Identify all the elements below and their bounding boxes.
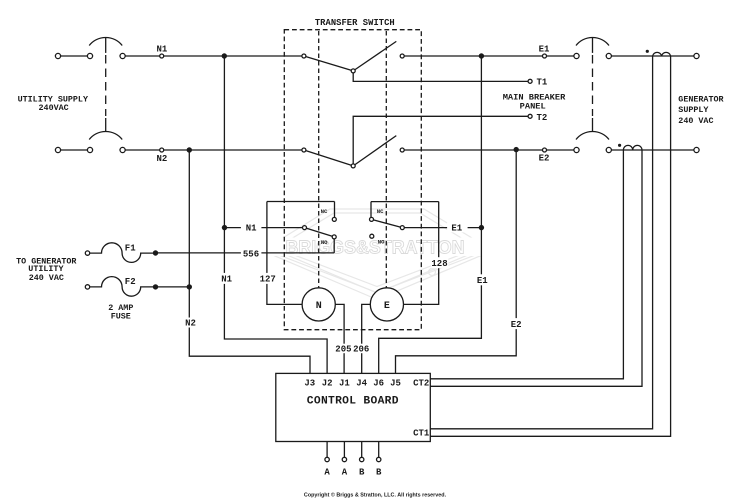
junction E1 top [479, 53, 484, 58]
wire pole 1 common to T1 [353, 71, 528, 82]
current transformer CT2 on E2 line (humps) [623, 145, 642, 150]
junction N1 top [222, 53, 227, 58]
coil E left lead (wire 206) to J4 [362, 304, 371, 373]
wire E2 through CT to generator terminal [609, 149, 697, 151]
label E1 relay (inline) [447, 222, 468, 232]
svg-text:E1: E1 [539, 45, 550, 55]
transfer switch dashed enclosure [284, 30, 421, 330]
transfer switch pole 1 blade to open contact [353, 41, 396, 71]
utility breaker pole 2 arc [89, 131, 122, 139]
transfer switch pole 1 pivot [351, 69, 355, 73]
wire pole 2 common to T2 [353, 116, 528, 166]
transfer switch pole 1 blade (N side) [304, 56, 353, 71]
node N2 marker circle [160, 148, 164, 152]
CT2 polarity dot [618, 144, 621, 147]
junction F1 output [153, 250, 158, 255]
junction N1 at relay line [222, 225, 227, 230]
svg-text:N1: N1 [246, 224, 257, 234]
utility breaker pole 1 handle tick [105, 37, 107, 53]
relay N NC contact [332, 217, 336, 221]
svg-text:N1: N1 [156, 45, 167, 55]
svg-text:N1: N1 [221, 275, 232, 285]
wire utility L2 stub [58, 149, 90, 151]
svg-text:J4: J4 [356, 378, 367, 388]
junction E1 at relay line [479, 225, 484, 230]
coil E [370, 288, 403, 321]
junction F2 output [153, 284, 158, 289]
label E1 vertical (inline) [474, 274, 490, 285]
terminal circle utility breaker 1 right [120, 53, 125, 58]
svg-text:J2: J2 [322, 378, 333, 388]
svg-text:J5: J5 [390, 378, 401, 388]
svg-text:CT1: CT1 [413, 429, 430, 439]
fuse F1 element [90, 243, 156, 263]
terminal main breaker 2 left [574, 147, 579, 152]
svg-text:B: B [359, 468, 365, 478]
pin A1 terminal [325, 457, 329, 461]
svg-text:A: A [342, 468, 348, 478]
svg-text:SUPPLY: SUPPLY [678, 105, 709, 115]
svg-text:NC: NC [377, 208, 384, 215]
transfer switch pole 2 pivot [351, 164, 355, 168]
svg-text:F2: F2 [125, 277, 136, 287]
control board pin B2 lead [378, 442, 380, 458]
svg-text:NO: NO [321, 239, 328, 246]
terminal circle utility L1 left [55, 53, 60, 58]
relay E NC contact drop [370, 202, 372, 218]
wire E1 vertical to J6 [379, 56, 482, 373]
svg-text:E2: E2 [511, 320, 522, 330]
svg-text:240VAC: 240VAC [39, 103, 69, 113]
svg-text:J1: J1 [339, 378, 350, 388]
terminal main breaker 2 right [606, 147, 611, 152]
svg-text:240 VAC: 240 VAC [678, 116, 713, 126]
transfer switch pole 2 blade to open contact [353, 136, 396, 166]
terminal circle utility breaker 2 right [120, 147, 125, 152]
svg-text:556: 556 [243, 249, 259, 259]
svg-text:J3: J3 [304, 378, 315, 388]
transfer switch pole 1 input contact [302, 54, 306, 58]
terminal T1 [528, 79, 532, 83]
label N1 at relay junction (inline) [241, 222, 262, 232]
wire E1 from relay E common to E1 vertical [404, 227, 481, 229]
pin B2 terminal [377, 457, 381, 461]
wire utility L1 stub [58, 55, 90, 57]
fuse F1 input terminal [85, 251, 89, 255]
label 128 (inline) [431, 257, 449, 268]
relay N left rail down to coil (wire 127) [267, 202, 302, 305]
terminal main breaker 1 left [574, 53, 579, 58]
relay E contact frame top rail [371, 201, 439, 203]
svg-text:F1: F1 [125, 244, 136, 254]
relay E NC contact [370, 217, 374, 221]
main breaker pole 2 handle tick [592, 118, 594, 132]
relay E common contact [400, 226, 404, 230]
label N2 vertical (inline) [183, 318, 199, 328]
svg-text:BRIGGS&STRATTON: BRIGGS&STRATTON [286, 237, 465, 258]
fuse F2 input terminal [85, 285, 89, 289]
current transformer CT1 on E1 line (humps) [653, 52, 671, 56]
junction E2 [514, 147, 519, 152]
svg-text:E1: E1 [451, 224, 462, 234]
relay N common contact [303, 226, 307, 230]
junction F2 to N2 [187, 284, 192, 289]
svg-text:N2: N2 [185, 319, 196, 329]
svg-text:CT2: CT2 [413, 378, 429, 388]
relay N NO contact drop to 556 [333, 239, 335, 253]
terminal main breaker 1 right [606, 53, 611, 58]
svg-text:205: 205 [335, 345, 351, 355]
wire E2 vertical to J5 [396, 150, 517, 374]
linkage dashed line from E coil to switch (x=386.3) [385, 31, 387, 288]
svg-text:PANEL: PANEL [520, 101, 546, 111]
terminal T2 [528, 114, 532, 118]
transfer switch pole 2 generator contact [400, 148, 404, 152]
wire N1 rail from utility breaker to transfer switch [123, 55, 304, 57]
svg-text:E: E [384, 301, 390, 312]
terminal generator E2 [694, 147, 699, 152]
svg-text:CONTROL BOARD: CONTROL BOARD [307, 395, 399, 407]
node E2 marker circle [543, 148, 547, 152]
CT1 polarity dot [646, 50, 649, 53]
control board pin A1 lead [326, 442, 328, 458]
svg-text:127: 127 [260, 275, 276, 285]
relay N blade (common to NO) [305, 228, 335, 237]
relay N NC contact drop [334, 202, 336, 218]
wire transfer switch output to main breaker E1 [402, 55, 576, 57]
terminal circle utility breaker 1 left [87, 53, 92, 58]
svg-text:J6: J6 [373, 378, 384, 388]
svg-text:FUSE: FUSE [111, 312, 131, 322]
wire 556 from F1 to N relay NO contact [156, 252, 335, 254]
coil N [302, 288, 335, 321]
main breaker mechanical linkage (dashed) [592, 55, 594, 116]
utility breaker mechanical linkage (dashed) [105, 55, 107, 116]
linkage dashed line from N coil to switch (x=318.7) [318, 31, 320, 288]
utility breaker pole 1 arc [89, 37, 122, 45]
label E2 vertical (inline) [508, 318, 524, 329]
svg-text:T2: T2 [537, 113, 548, 123]
CT1 wire pair to E1 current transformer [430, 56, 670, 436]
CT2 wire pair to E2 current transformer [430, 150, 642, 386]
coil N right lead (wire 205) to J1 [335, 304, 344, 373]
svg-text:B: B [376, 468, 382, 478]
control board outline [276, 373, 431, 441]
svg-text:E2: E2 [539, 154, 550, 164]
wire N2 vertical to J3 [189, 150, 310, 373]
label 556 (inline) [241, 248, 262, 258]
relay E blade (common to NC) [372, 219, 403, 227]
label 205 (inline) [335, 344, 353, 354]
utility breaker pole 2 handle tick [105, 118, 107, 132]
control board pin A2 lead [343, 442, 345, 458]
svg-text:NO: NO [378, 238, 385, 245]
terminal generator E1 [694, 53, 699, 58]
main breaker pole 1 handle tick [592, 37, 594, 53]
svg-text:Copyright © Briggs & Stratton,: Copyright © Briggs & Stratton, LLC. All … [304, 492, 447, 499]
svg-text:A: A [324, 468, 330, 478]
main breaker pole 1 arc [576, 37, 609, 45]
wire N2 rail from utility breaker to transfer switch [123, 149, 304, 151]
node E1 marker circle [543, 54, 547, 58]
svg-text:240 VAC: 240 VAC [29, 273, 64, 283]
svg-text:NC: NC [321, 208, 328, 215]
watermark text band [266, 238, 488, 257]
svg-text:N: N [316, 301, 322, 312]
svg-text:T1: T1 [537, 78, 548, 88]
junction N2 [187, 147, 192, 152]
wire N1 into relay N common [225, 227, 303, 229]
transfer switch pole 2 input contact [302, 148, 306, 152]
fuse F2 element [90, 277, 156, 297]
pin B1 terminal [360, 457, 364, 461]
svg-text:TRANSFER SWITCH: TRANSFER SWITCH [315, 18, 395, 28]
relay E right rail down to coil (wire 128) [404, 202, 439, 305]
main breaker pole 2 arc [576, 131, 609, 139]
relay E NO contact [370, 234, 374, 238]
pin A2 terminal [342, 457, 346, 461]
relay N NO contact [332, 235, 336, 239]
svg-text:E1: E1 [477, 276, 488, 286]
terminal circle utility breaker 2 left [87, 147, 92, 152]
terminal circle utility L2 left [55, 147, 60, 152]
transfer switch pole 1 generator contact [400, 54, 404, 58]
wire F2 to N2 vertical [156, 286, 190, 288]
wire E1 through CT to generator terminal [609, 55, 697, 57]
svg-text:206: 206 [353, 345, 369, 355]
watermark Briggs & Stratton logo [268, 209, 487, 300]
control board pin B1 lead [361, 442, 363, 458]
wire N1 vertical to relay and J2 [224, 56, 327, 373]
transfer switch pole 2 blade (N side) [304, 150, 353, 166]
svg-text:GENERATOR: GENERATOR [678, 95, 724, 105]
label 206 (inline) [353, 344, 371, 354]
svg-text:128: 128 [431, 259, 447, 269]
node N1 marker circle [160, 54, 164, 58]
relay N contact frame top rail [267, 201, 335, 203]
wire transfer switch output to main breaker E2 [402, 149, 576, 151]
label N1 vertical (inline) [219, 273, 235, 284]
svg-text:N2: N2 [156, 154, 167, 164]
label 127 (inline) [259, 273, 277, 284]
